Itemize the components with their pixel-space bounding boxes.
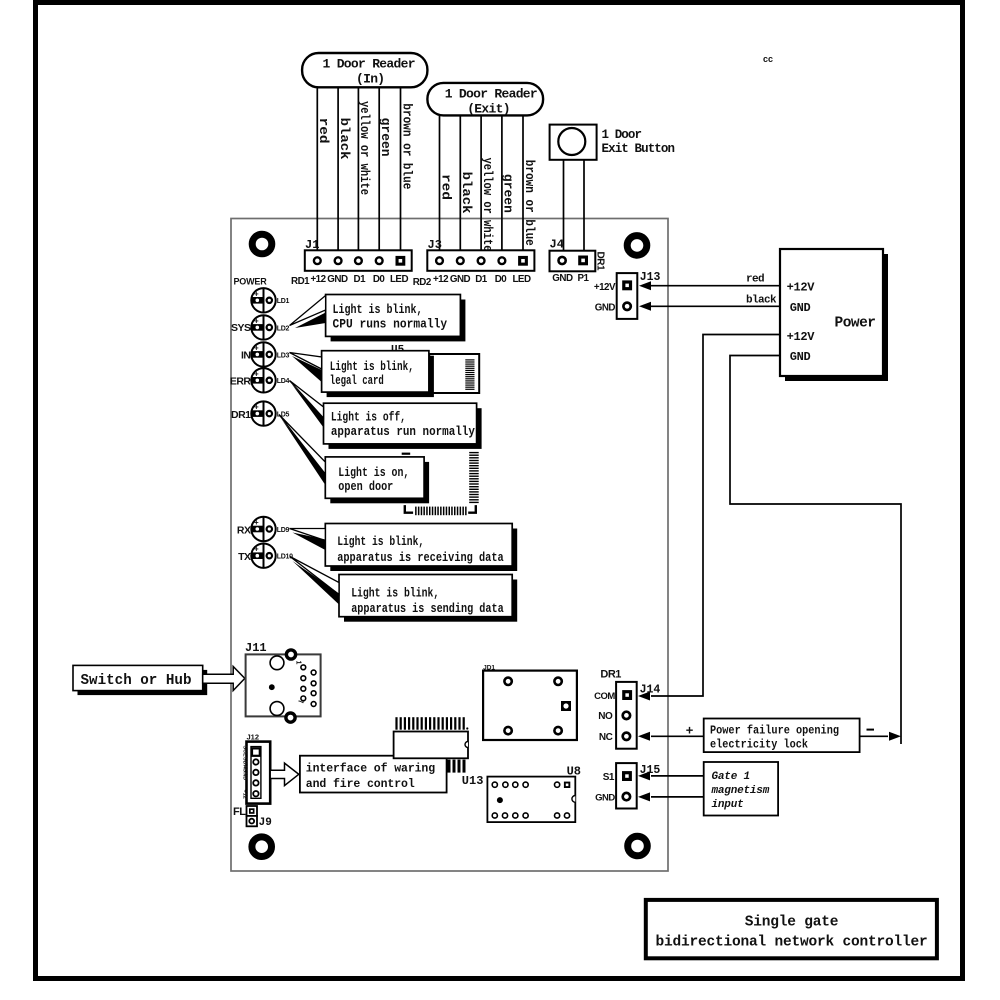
svg-text:+: + <box>254 403 259 412</box>
svg-text:+: + <box>254 316 259 325</box>
J12 circle pads <box>253 759 258 764</box>
svg-text:J14: J14 <box>640 684 661 697</box>
svg-text:brown or blue: brown or blue <box>399 103 414 189</box>
J1 pin D1 pad <box>355 257 362 264</box>
svg-text:yellow or white: yellow or white <box>357 101 372 195</box>
wire lock plus to NC <box>651 735 704 737</box>
svg-text:D1: D1 <box>354 274 367 285</box>
chip U7 QFP bottom pin row <box>415 507 467 516</box>
svg-text:1 Door Reader: 1 Door Reader <box>323 57 415 72</box>
mounting hole bottom-left <box>252 837 272 857</box>
svg-text:DR1: DR1 <box>600 669 621 681</box>
J11 center dot <box>269 684 275 690</box>
callout 4 pointer <box>279 415 325 475</box>
switch or hub box <box>78 670 208 695</box>
wire black Power to J13 <box>651 305 780 307</box>
J3 pin +12 pad <box>436 257 443 264</box>
svg-text:black: black <box>459 172 474 214</box>
callout 1 CPU runs normally <box>331 300 466 342</box>
wire lock minus to GND line <box>860 735 888 737</box>
block arrow to interface box <box>270 763 299 786</box>
interface of wiring box <box>300 756 447 793</box>
svg-text:LD3: LD3 <box>277 352 290 359</box>
svg-text:bidirectional network controll: bidirectional network controller <box>655 935 927 951</box>
svg-text:red: red <box>316 118 331 144</box>
svg-text:Power: Power <box>835 316 876 332</box>
J3 pin D0 pad <box>499 257 506 264</box>
svg-text:apparatus is receiving data: apparatus is receiving data <box>337 550 504 565</box>
svg-text:S1: S1 <box>603 772 615 783</box>
svg-text:yellow or white: yellow or white <box>480 158 495 252</box>
svg-text:U13: U13 <box>462 774 484 788</box>
J11 guide hole top <box>270 656 284 670</box>
svg-text:LD1: LD1 <box>277 298 290 305</box>
exit button S <box>550 125 597 160</box>
svg-text:RX: RX <box>237 525 251 537</box>
J11 bottom mounting pad <box>286 713 295 722</box>
PCB board outline <box>231 219 668 872</box>
svg-text:J9: J9 <box>259 817 272 829</box>
callout 6 sending data <box>344 580 517 622</box>
svg-text:ERR: ERR <box>230 376 252 388</box>
svg-text:brown or blue: brown or blue <box>522 160 537 246</box>
svg-text:1 Door: 1 Door <box>602 128 642 142</box>
svg-text:+: + <box>254 369 259 378</box>
callout 5 pointer <box>290 529 326 541</box>
svg-text:D0: D0 <box>373 274 386 285</box>
svg-text:GND: GND <box>595 302 616 313</box>
svg-text:+12: +12 <box>310 274 326 285</box>
svg-text:+: + <box>254 289 259 298</box>
svg-text:GND: GND <box>552 273 573 284</box>
callout 3 pointer <box>290 381 324 419</box>
callout 4 open door <box>330 462 429 503</box>
svg-text:NC: NC <box>599 732 613 743</box>
wire gate to S1 <box>651 775 704 777</box>
power supply box <box>785 254 888 381</box>
svg-text:CPU runs normally: CPU runs normally <box>333 317 448 332</box>
svg-text:Power failure opening: Power failure opening <box>710 725 839 738</box>
svg-text:electricity lock: electricity lock <box>710 738 808 751</box>
svg-text:J12: J12 <box>247 733 260 742</box>
svg-text:open door: open door <box>338 479 393 494</box>
chip U13 top pin row <box>395 717 468 730</box>
svg-text:LED: LED <box>390 274 409 285</box>
svg-text:J4: J4 <box>550 238 564 252</box>
J3 pin GND pad <box>457 257 464 264</box>
svg-text:green: green <box>378 118 393 157</box>
mounting hole bottom-right <box>628 836 648 856</box>
svg-text:GND: GND <box>790 301 811 315</box>
svg-text:Light is blink,: Light is blink, <box>337 534 424 549</box>
svg-text:+12V: +12V <box>594 282 616 293</box>
svg-text:1: 1 <box>295 661 302 665</box>
svg-text:Light is blink,: Light is blink, <box>351 586 439 601</box>
chip U5 pin strip <box>465 359 474 390</box>
svg-text:black: black <box>746 295 777 307</box>
svg-text:+: + <box>254 343 259 352</box>
lock box <box>704 719 860 753</box>
svg-text:+12V: +12V <box>787 330 816 344</box>
svg-text:COM: COM <box>594 691 615 702</box>
callout 2 pointer <box>290 353 322 370</box>
svg-text:LD9: LD9 <box>277 527 290 534</box>
svg-text:apparatus run normally: apparatus run normally <box>331 424 475 439</box>
svg-text:Gate 1: Gate 1 <box>712 771 750 783</box>
gate box <box>704 762 778 816</box>
svg-text:GND: GND <box>450 274 471 285</box>
svg-text:GND: GND <box>595 792 615 803</box>
svg-text:IN: IN <box>241 350 251 362</box>
J12 pin1 square pad <box>252 748 260 755</box>
svg-text:+: + <box>686 724 694 739</box>
svg-text:SYS: SYS <box>231 322 251 334</box>
J4 pin GND pad <box>559 257 566 264</box>
wire red Power to J13 <box>651 285 780 287</box>
svg-text:LED: LED <box>512 274 531 285</box>
svg-text:apparatus is sending data: apparatus is sending data <box>351 601 504 616</box>
J11 top mounting pad <box>286 650 295 659</box>
J3 pin LED pad <box>518 256 528 266</box>
svg-text:LD2: LD2 <box>277 325 290 332</box>
callout 5 receiving data <box>330 529 517 572</box>
svg-text:(Exit): (Exit) <box>467 101 510 116</box>
svg-text:legal card: legal card <box>330 373 384 388</box>
J1 pin +12 pad <box>314 257 321 264</box>
wires exit button to J4 <box>564 160 585 250</box>
J4 pin P1 pad <box>578 256 588 266</box>
svg-text:GND: GND <box>242 768 248 780</box>
svg-text:+: + <box>254 545 259 554</box>
J13 pin +12V pad <box>622 280 632 290</box>
mounting hole top-left <box>252 234 272 254</box>
svg-text:DR1: DR1 <box>595 252 606 271</box>
block arrow to J11 <box>203 667 245 691</box>
svg-text:GND: GND <box>790 350 811 364</box>
svg-text:black: black <box>337 118 352 160</box>
chip U13 bottom pins <box>448 760 466 773</box>
J3 pin D1 pad <box>478 257 485 264</box>
svg-text:red: red <box>438 174 453 200</box>
J13 pin GND pad <box>623 303 630 310</box>
wire gate to GND <box>651 796 704 798</box>
svg-text:POWER: POWER <box>234 277 268 287</box>
wires reader In to J1 <box>317 87 400 250</box>
svg-text:SDA: SDA <box>242 757 248 769</box>
svg-text:SCL: SCL <box>242 746 248 758</box>
callout 3 apparatus run normally <box>329 408 482 449</box>
mounting hole top-right <box>627 236 647 256</box>
svg-text:RD1: RD1 <box>291 276 310 287</box>
svg-text:GND: GND <box>327 274 348 285</box>
svg-text:+12V: +12V <box>787 281 816 295</box>
svg-text:P1: P1 <box>578 273 590 284</box>
U8 pin1 square pad <box>564 782 570 788</box>
svg-text:J11: J11 <box>245 641 267 655</box>
svg-text:FL: FL <box>233 806 246 818</box>
svg-text:1 Door Reader: 1 Door Reader <box>445 86 537 101</box>
svg-text:D1: D1 <box>475 274 488 285</box>
callout 6 pointer <box>290 557 339 595</box>
wires reader Exit to J3 <box>440 115 524 250</box>
svg-text:Light is blink,: Light is blink, <box>333 302 423 317</box>
wire GND second output to lock negative <box>730 356 901 745</box>
chip U5 body <box>429 354 479 393</box>
J1 pin LED pad <box>396 256 406 266</box>
svg-text:TX: TX <box>238 551 251 563</box>
wire +12V second output to J14 COM <box>651 335 780 697</box>
J1 pin D0 pad <box>376 257 383 264</box>
J1 pin GND pad <box>335 257 342 264</box>
door reader (Exit) capsule <box>427 83 543 116</box>
svg-text:magnetism: magnetism <box>711 785 770 797</box>
jumper J9 <box>247 806 258 816</box>
svg-text:(In): (In) <box>356 72 384 87</box>
chip U13 body <box>394 732 468 759</box>
svg-text:cc: cc <box>763 54 773 64</box>
svg-text:Light is blink,: Light is blink, <box>330 359 414 374</box>
svg-text:+12: +12 <box>242 790 248 799</box>
svg-text:D0: D0 <box>495 274 508 285</box>
svg-text:+: + <box>254 518 259 527</box>
chip U7 QFP bottom-left corner bracket <box>405 505 413 513</box>
chip U7 QFP bottom-right corner bracket <box>468 505 476 513</box>
svg-text:input: input <box>712 799 744 811</box>
J11 guide hole bottom <box>270 702 284 716</box>
title box <box>646 900 937 958</box>
svg-text:Single gate: Single gate <box>745 915 839 931</box>
J11 pin pads <box>301 665 316 707</box>
svg-text:RD2: RD2 <box>413 277 432 288</box>
chip U7 QFP top-left pins <box>402 453 411 455</box>
svg-text:green: green <box>501 174 516 213</box>
callout 2 legal card <box>327 356 434 397</box>
svg-text:DR1: DR1 <box>231 409 251 421</box>
svg-text:Switch or Hub: Switch or Hub <box>81 673 192 689</box>
callout 1 pointer <box>290 296 326 326</box>
svg-text:LD4: LD4 <box>277 378 290 385</box>
chip U7 QFP right pin column <box>469 452 479 503</box>
svg-text:red: red <box>746 274 764 286</box>
svg-text:interface of waring: interface of waring <box>306 763 435 776</box>
svg-text:+12: +12 <box>433 274 449 285</box>
svg-text:NO: NO <box>598 711 613 722</box>
svg-text:Light is off,: Light is off, <box>331 410 406 425</box>
svg-text:Light is on,: Light is on, <box>338 465 409 480</box>
U8 orientation dot <box>497 797 503 803</box>
svg-text:and fire control: and fire control <box>306 778 415 791</box>
door reader (In) capsule <box>302 53 427 87</box>
svg-text:Exit Button: Exit Button <box>602 142 675 156</box>
